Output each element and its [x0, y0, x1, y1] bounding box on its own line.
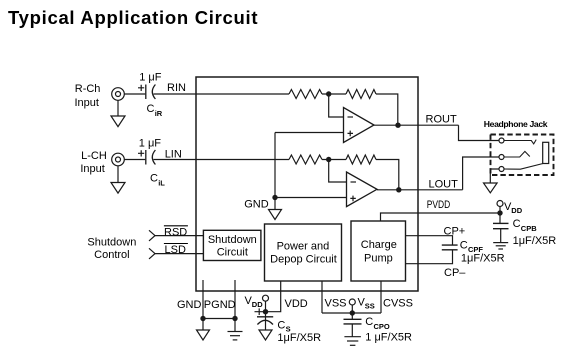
plus sign CiR	[138, 85, 144, 91]
wire VSS-CVSS bond	[322, 312, 381, 314]
svg-text:C: C	[147, 103, 155, 115]
resistor R4 (L feedback)	[346, 155, 376, 164]
wire noninverting U2 to GND rail	[275, 197, 347, 199]
svg-text:C: C	[150, 173, 158, 185]
wire RSD	[155, 235, 203, 237]
node junction (R op-amp inverting)	[326, 91, 331, 96]
svg-text:Charge: Charge	[361, 239, 397, 251]
ground (CCPB earth)	[493, 243, 508, 249]
svg-text:LSD: LSD	[165, 244, 186, 256]
terminal VSS	[349, 299, 355, 305]
svg-text:Input: Input	[74, 97, 98, 109]
ground (CCPO earth)	[344, 337, 361, 346]
jack tip contact wire	[504, 140, 536, 144]
terminal VDD (bottom)	[263, 295, 269, 301]
svg-text:Typical Application Circuit: Typical Application Circuit	[8, 7, 258, 28]
wire VDD terminal stub	[499, 207, 501, 214]
jack plug sleeve bar	[543, 142, 549, 163]
svg-text:R-Ch: R-Ch	[75, 83, 101, 95]
wire U2 output to LOUT	[377, 189, 463, 191]
node PVDD-CPB	[497, 210, 502, 215]
wire GND rail vertical	[274, 133, 276, 210]
pin label RSD (overbar)	[164, 226, 188, 239]
capacitor CS (polarized)	[257, 317, 273, 325]
jack ring contact circle	[499, 155, 504, 160]
svg-text:DD: DD	[252, 300, 263, 309]
label Power and Depop Circuit	[270, 241, 337, 266]
label L-CH Input	[80, 150, 107, 175]
block Charge Pump	[351, 221, 406, 281]
plus sign U1	[348, 131, 354, 137]
svg-text:C: C	[460, 239, 468, 251]
jack sleeve contact wire	[504, 163, 544, 169]
svg-text:DD: DD	[511, 206, 522, 215]
node ROUT	[395, 123, 400, 128]
label CS	[277, 320, 290, 334]
node VSS	[350, 310, 355, 315]
wire R3 to R4	[322, 159, 346, 161]
connector chevron LSD	[149, 248, 155, 259]
wire CP+	[406, 236, 453, 245]
block Power and Depop Circuit	[265, 224, 342, 281]
svg-text:1μF/X5R: 1μF/X5R	[461, 252, 505, 264]
svg-text:iL: iL	[158, 178, 165, 187]
wire LIN to R3	[154, 159, 290, 161]
wire PVDD rail	[381, 213, 501, 221]
wire connector to CiL	[124, 159, 145, 161]
wire inverting input op-amp U2	[329, 160, 347, 183]
svg-text:Shutdown: Shutdown	[87, 237, 136, 249]
svg-text:RSD: RSD	[164, 226, 187, 238]
jack tip contact circle	[499, 138, 504, 143]
wire PVDD node to CCPB	[499, 213, 501, 223]
wire inverting input op-amp U1	[329, 94, 344, 117]
label CCPB	[513, 218, 538, 233]
capacitor CiL (polarized)	[146, 150, 156, 165]
svg-text:Control: Control	[94, 249, 129, 261]
label VDD terminal (top right)	[504, 201, 523, 215]
svg-text:LOUT: LOUT	[429, 178, 459, 190]
resistor R2 (R feedback)	[346, 90, 376, 99]
wire R2 to ROUT node (feedback)	[376, 94, 398, 125]
plus sign U2	[350, 196, 356, 202]
wire GND pin stub	[202, 280, 204, 319]
terminal VDD (top right)	[497, 201, 503, 207]
minus sign U2	[351, 181, 357, 183]
label Shutdown Control	[87, 237, 136, 262]
resistor R1 (RIN input)	[289, 90, 322, 99]
wire LOUT to headphone jack ring	[463, 157, 500, 190]
op-amp U1 (right channel)	[344, 108, 375, 143]
wire noninverting U1 to GND rail	[275, 132, 344, 134]
svg-text:Pump: Pump	[364, 253, 393, 265]
wire U1 output to ROUT	[374, 124, 459, 126]
ground (headphone jack)	[484, 183, 498, 193]
svg-text:1 μF/X5R: 1 μF/X5R	[365, 331, 412, 343]
wire CVSS pin stub	[380, 281, 382, 313]
label VSS terminal	[358, 297, 375, 311]
ground (PGND earth)	[228, 332, 243, 340]
svg-text:Circuit: Circuit	[217, 246, 248, 258]
svg-text:Headphone Jack: Headphone Jack	[484, 119, 548, 129]
svg-text:C: C	[365, 316, 373, 328]
svg-text:LIN: LIN	[165, 148, 182, 160]
jack sleeve contact circle	[499, 167, 504, 172]
connector J1 R-Ch input jack	[112, 88, 125, 101]
svg-text:SS: SS	[365, 302, 375, 311]
svg-text:GND: GND	[244, 198, 269, 210]
label CCPO	[365, 316, 390, 331]
svg-text:Shutdown: Shutdown	[208, 234, 257, 246]
capacitor CCPF	[442, 245, 458, 250]
svg-text:ROUT: ROUT	[426, 114, 457, 126]
wire RIN to R1	[154, 93, 290, 95]
node junction (L op-amp inverting)	[326, 157, 331, 162]
label R-Ch Input	[74, 83, 100, 109]
connector J2 L-CH input jack	[112, 153, 125, 166]
wire R4 to LOUT node (feedback)	[376, 160, 399, 190]
capacitor CCPB	[493, 223, 509, 228]
IC outline box	[196, 77, 418, 291]
label CiL	[150, 173, 165, 188]
wire GND to ground symbol	[202, 319, 204, 331]
wire R1 to R2	[322, 93, 346, 95]
svg-text:C: C	[277, 320, 285, 332]
wire VDD node to pin	[255, 281, 281, 312]
svg-text:L-CH: L-CH	[81, 150, 107, 162]
svg-text:CPB: CPB	[521, 224, 537, 233]
node GND rail junction	[272, 195, 277, 200]
svg-text:Power and: Power and	[277, 241, 330, 253]
wire VDD terminal to node	[265, 301, 267, 330]
wire GND-PGND bond	[203, 318, 235, 320]
node VDD	[263, 309, 268, 314]
svg-text:Input: Input	[80, 163, 104, 175]
wire CCPB to ground	[500, 229, 502, 243]
node PGND bottom	[232, 316, 237, 321]
svg-text:1 μF: 1 μF	[139, 72, 162, 84]
ground (R-Ch input)	[111, 100, 125, 126]
svg-text:CPO: CPO	[374, 322, 390, 331]
wire jack sleeve to ground	[490, 169, 499, 183]
wire connector to CiR	[124, 93, 145, 95]
resistor R3 (LIN input)	[289, 155, 322, 164]
svg-text:1 μF: 1 μF	[139, 138, 162, 150]
headphone jack dashed outline	[491, 135, 554, 176]
svg-text:CP–: CP–	[444, 267, 466, 279]
block Shutdown Circuit	[203, 230, 261, 260]
plus sign CiL	[138, 150, 144, 156]
wire VSS terminal stub	[351, 305, 353, 319]
ground (L-CH input)	[111, 166, 125, 193]
svg-text:GND: GND	[177, 299, 202, 311]
label Charge Pump	[361, 239, 397, 265]
svg-text:PGND: PGND	[204, 299, 236, 311]
label VDD terminal (bottom)	[245, 295, 264, 309]
svg-text:1μF/X5R: 1μF/X5R	[277, 332, 321, 344]
capacitor CiR (polarized)	[146, 85, 156, 100]
jack ring contact wire	[504, 151, 530, 157]
svg-text:RIN: RIN	[167, 82, 186, 94]
label Shutdown Circuit	[208, 234, 257, 259]
ground (GND open triangle)	[197, 330, 210, 340]
node GND bottom	[200, 316, 205, 321]
wire LSD	[155, 253, 203, 255]
label CiR	[147, 103, 163, 118]
wire ROUT to headphone jack tip	[459, 125, 500, 140]
ground (CS open triangle)	[259, 330, 272, 340]
svg-text:VSS: VSS	[325, 297, 347, 309]
minus sign U1	[348, 116, 354, 118]
wire PGND to earth	[234, 319, 236, 332]
label CCPF	[460, 239, 484, 254]
ground (op-amp rail)	[269, 210, 282, 220]
svg-text:Depop Circuit: Depop Circuit	[270, 254, 337, 266]
connector chevron RSD	[149, 230, 155, 241]
svg-text:iR: iR	[155, 109, 163, 118]
capacitor CCPO	[344, 319, 362, 324]
op-amp U2 (left channel)	[347, 172, 378, 207]
svg-text:C: C	[513, 218, 521, 230]
svg-text:CVSS: CVSS	[383, 298, 413, 310]
plus sign CS	[258, 308, 260, 315]
wire CP-	[406, 250, 453, 264]
svg-text:VDD: VDD	[285, 298, 308, 310]
wire CCPO to earth	[351, 324, 353, 337]
wire PGND pin stub	[234, 280, 236, 319]
wire VSS pin stub	[321, 281, 323, 313]
svg-text:PVDD: PVDD	[427, 199, 450, 211]
svg-text:1μF/X5R: 1μF/X5R	[513, 235, 557, 247]
pin label LSD (overbar)	[164, 244, 188, 257]
node LOUT	[396, 187, 401, 192]
